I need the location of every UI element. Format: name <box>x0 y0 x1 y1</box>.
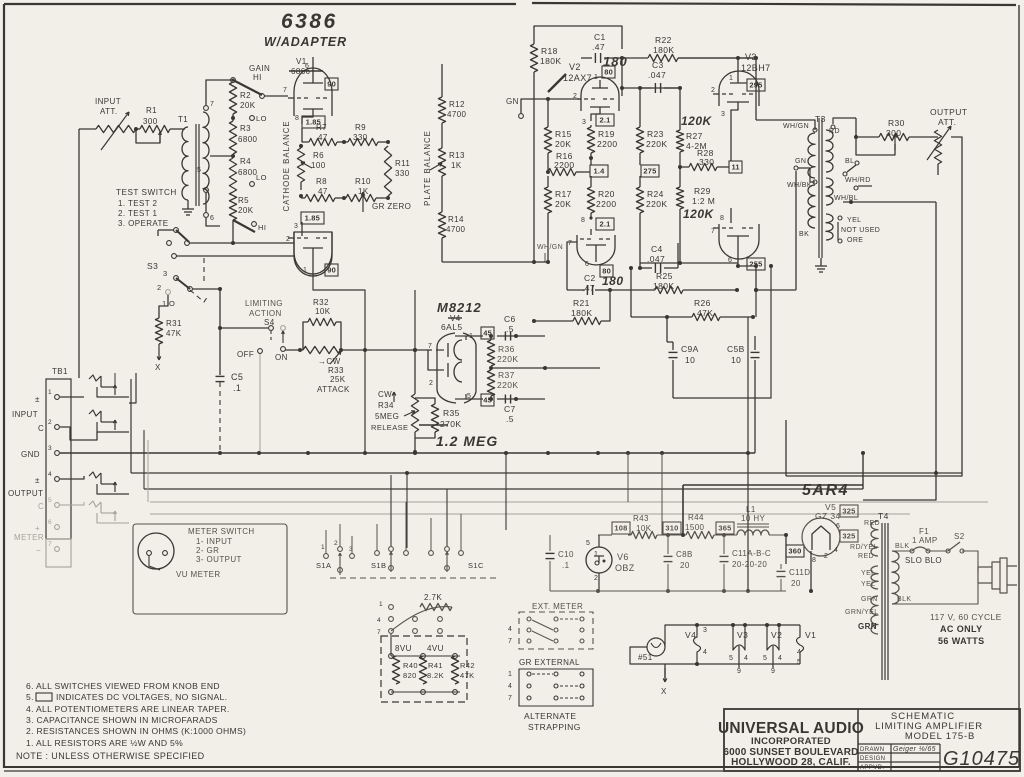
svg-text:4: 4 <box>797 649 801 656</box>
gnd T3 <box>815 258 827 272</box>
value 180 a <box>603 54 628 69</box>
pin 5 V4 <box>466 393 483 400</box>
svg-text:3: 3 <box>294 223 298 230</box>
svg-text:1: 1 <box>48 389 52 396</box>
svg-text:C6: C6 <box>504 314 516 324</box>
wire y263 <box>640 262 738 264</box>
svg-text:220K: 220K <box>497 354 518 364</box>
wire <box>809 551 813 593</box>
svg-text:V2: V2 <box>771 630 782 640</box>
svg-text:GR EXTERNAL: GR EXTERNAL <box>519 658 580 667</box>
heavy feed <box>683 485 863 535</box>
svg-text:R10: R10 <box>355 177 371 186</box>
svg-text:INPUT: INPUT <box>12 410 38 419</box>
svg-text:820: 820 <box>403 671 417 680</box>
svg-text:ATTACK: ATTACK <box>317 385 350 394</box>
title note 6386 <box>281 10 338 33</box>
svg-text:R4: R4 <box>240 157 251 166</box>
T4 sec red <box>850 520 880 560</box>
resistor R43 <box>631 514 657 539</box>
wire x667 <box>666 317 668 342</box>
svg-text:4: 4 <box>703 649 707 656</box>
svg-text:1500: 1500 <box>685 523 705 532</box>
T3 sec wiring <box>833 118 936 241</box>
plate balance label <box>423 130 432 206</box>
svg-text:ATT.: ATT. <box>938 117 956 127</box>
heater V2 <box>763 623 782 675</box>
gnd bus ps <box>550 589 786 593</box>
svg-text:R22: R22 <box>655 35 672 45</box>
svg-text:LO: LO <box>256 114 267 123</box>
boxed 275 <box>641 165 659 177</box>
svg-text:325: 325 <box>842 507 855 516</box>
pin1 V2 <box>594 74 598 81</box>
wire <box>60 476 84 479</box>
alternate strapping label <box>524 711 581 732</box>
wire x506 <box>505 453 507 530</box>
svg-text:T3: T3 <box>815 114 826 124</box>
svg-text:GN: GN <box>795 158 806 165</box>
capacitor C9B <box>727 336 760 453</box>
pin7 V2 <box>567 240 577 290</box>
svg-text:1: 1 <box>729 75 733 82</box>
wire <box>754 56 758 120</box>
svg-text:R8: R8 <box>316 177 327 186</box>
wire x662 <box>661 453 663 535</box>
wire <box>60 396 84 398</box>
svg-text:YEL: YEL <box>861 570 875 577</box>
svg-text:5: 5 <box>763 655 767 662</box>
svg-text:270K: 270K <box>440 419 461 429</box>
resistor R12 <box>438 97 466 123</box>
cap C8B <box>664 535 693 591</box>
svg-text:20K: 20K <box>555 199 571 209</box>
jack input 1 <box>59 375 129 397</box>
resistor R40 <box>392 656 418 684</box>
title table <box>858 744 940 771</box>
svg-text:C5B: C5B <box>727 344 745 354</box>
svg-text:1 AMP: 1 AMP <box>912 536 938 545</box>
svg-text:HI: HI <box>258 223 266 232</box>
svg-text:OUTPUT: OUTPUT <box>8 489 43 498</box>
TB1 terminal 5 <box>8 489 59 511</box>
potentiometer R34 <box>371 350 419 454</box>
svg-text:INPUT: INPUT <box>95 97 121 106</box>
svg-text:7: 7 <box>210 101 214 108</box>
transformer T1 core <box>196 124 199 206</box>
dashed gang S3 <box>190 258 208 302</box>
pin1 V3 <box>729 56 740 82</box>
svg-text:1: 1 <box>379 601 383 608</box>
svg-text:V3: V3 <box>737 630 748 640</box>
svg-text:8: 8 <box>581 217 585 224</box>
value 120K b <box>683 207 715 221</box>
svg-text:±: ± <box>35 395 40 404</box>
inductor L1 <box>737 505 769 535</box>
TB1 terminal 1 <box>35 389 59 404</box>
label V2 <box>548 62 592 92</box>
resistor R37 <box>487 370 518 396</box>
svg-text:X: X <box>661 687 667 696</box>
svg-text:#51: #51 <box>638 653 653 662</box>
svg-text:G10475: G10475 <box>943 748 1020 770</box>
svg-text:HI: HI <box>253 73 262 82</box>
note footer <box>16 751 205 761</box>
svg-text:ATT.: ATT. <box>100 107 117 116</box>
capacitor C5 <box>216 289 244 452</box>
wires S1 up <box>326 475 461 553</box>
svg-text:RELEASE: RELEASE <box>371 423 408 432</box>
svg-text:220K: 220K <box>497 380 518 390</box>
svg-text:BLK: BLK <box>895 543 909 550</box>
wire x771 <box>673 264 773 398</box>
svg-text:AC ONLY: AC ONLY <box>940 624 982 634</box>
svg-text:R5: R5 <box>238 196 249 205</box>
boxed 310 <box>663 522 681 534</box>
svg-text:1K: 1K <box>451 161 462 170</box>
wire out right2 <box>863 202 938 500</box>
svg-text:R40: R40 <box>403 661 418 670</box>
resistor R1 <box>140 125 170 132</box>
svg-text:3: 3 <box>582 119 586 126</box>
svg-text:GAIN: GAIN <box>249 64 270 73</box>
bus y489 <box>144 488 863 490</box>
TB1 terminal 6 <box>35 519 59 533</box>
wire <box>730 123 732 161</box>
resistor R27 <box>676 86 707 169</box>
wire <box>937 164 939 175</box>
boxed 365 <box>716 522 734 534</box>
svg-text:ON: ON <box>275 353 288 362</box>
svg-text:108: 108 <box>614 524 627 533</box>
svg-text:−: − <box>36 546 41 555</box>
resistor R17 <box>544 176 571 262</box>
svg-text:R44: R44 <box>688 513 704 522</box>
svg-text:5MEG: 5MEG <box>375 412 399 421</box>
svg-text:RD/YEL: RD/YEL <box>850 544 878 551</box>
meter switch label <box>188 527 255 564</box>
test switch items <box>118 199 169 228</box>
wire GN <box>506 97 581 118</box>
label GR ZERO <box>372 202 411 211</box>
svg-text:7: 7 <box>428 343 432 350</box>
svg-text:2.1: 2.1 <box>599 116 610 125</box>
wire <box>376 197 388 199</box>
svg-text:R25: R25 <box>656 271 673 281</box>
svg-text:7: 7 <box>711 228 715 235</box>
svg-text:7: 7 <box>377 629 381 636</box>
svg-text:3: 3 <box>163 269 168 278</box>
svg-text:C3: C3 <box>652 60 664 70</box>
svg-text:CW: CW <box>378 390 392 399</box>
svg-text:C9A: C9A <box>681 344 699 354</box>
svg-text:R2: R2 <box>240 91 251 100</box>
svg-text:.047: .047 <box>648 70 666 80</box>
wire <box>441 176 443 212</box>
wire <box>738 264 758 290</box>
svg-text:R18: R18 <box>541 46 558 56</box>
wire <box>205 193 207 212</box>
svg-text:R7: R7 <box>316 123 327 132</box>
terminal board TB1 label <box>52 367 68 376</box>
svg-text:V2: V2 <box>569 62 581 72</box>
wire <box>134 127 140 131</box>
svg-text:METER SWITCH: METER SWITCH <box>188 527 255 536</box>
wire c2 row <box>567 285 612 295</box>
svg-text:V6: V6 <box>617 552 629 562</box>
svg-text:TEST SWITCH: TEST SWITCH <box>116 188 177 197</box>
resistor R9 <box>348 123 378 146</box>
svg-text:WH/RD: WH/RD <box>845 177 871 184</box>
svg-text:.5: .5 <box>506 324 514 334</box>
svg-text:NOT USED: NOT USED <box>841 227 880 234</box>
wire <box>639 176 641 187</box>
svg-text:1.85: 1.85 <box>305 214 320 223</box>
svg-text:R37: R37 <box>498 370 515 380</box>
svg-text:INDICATES DC VOLTAGES, NO SIGN: INDICATES DC VOLTAGES, NO SIGNAL. <box>56 692 227 702</box>
boxed 108 <box>612 522 630 534</box>
svg-text:4700: 4700 <box>447 110 467 119</box>
value 1.2 MEG <box>436 433 498 449</box>
svg-text:47K: 47K <box>166 329 182 338</box>
pin 8 V1 <box>295 109 313 124</box>
svg-text:R19: R19 <box>598 129 615 139</box>
wire <box>114 373 116 388</box>
terminal T1 pin7 <box>204 101 215 110</box>
bus y535 <box>598 533 786 537</box>
meter box <box>133 524 287 614</box>
svg-text:DESIGN: DESIGN <box>860 756 885 762</box>
cap C11D <box>777 564 811 591</box>
strap terminals <box>377 601 442 636</box>
wire x786b <box>784 533 788 564</box>
svg-text:R36: R36 <box>498 344 515 354</box>
capacitor C2 <box>582 273 624 293</box>
svg-text:3: 3 <box>48 445 52 452</box>
resistor R35 <box>415 398 461 438</box>
svg-text:R9: R9 <box>355 123 366 132</box>
potentiometer R33 <box>303 346 350 394</box>
svg-text:100: 100 <box>311 161 326 170</box>
svg-text:1:2 M: 1:2 M <box>692 196 715 206</box>
svg-text:GRN/YEL: GRN/YEL <box>845 609 879 616</box>
resistor R29 <box>676 167 715 265</box>
label V3 <box>741 52 771 73</box>
svg-text:BK: BK <box>799 231 809 238</box>
svg-text:47K: 47K <box>460 671 475 680</box>
wire X down <box>661 664 667 696</box>
wire vertical x144 <box>143 430 145 489</box>
boxed 80 a <box>602 66 615 78</box>
svg-text:8VU: 8VU <box>395 644 412 653</box>
terminal T1 pin5 <box>197 167 208 192</box>
loop R30 <box>856 137 895 155</box>
switch S4 <box>218 326 285 343</box>
T4 sec grn <box>845 596 879 634</box>
T3 labels <box>783 123 880 244</box>
cap C11ABC <box>720 535 772 591</box>
svg-text:.1: .1 <box>233 383 241 393</box>
svg-text:C11D: C11D <box>789 568 810 577</box>
svg-text:5.: 5. <box>26 692 34 702</box>
capacitor C7 <box>497 395 516 425</box>
boxed 360 <box>786 545 804 557</box>
wire <box>192 287 222 291</box>
svg-text:EXT. METER: EXT. METER <box>532 602 583 611</box>
svg-text:90: 90 <box>327 266 336 275</box>
wire <box>60 427 97 440</box>
resistor R18 <box>530 44 561 262</box>
svg-text:4VU: 4VU <box>427 644 444 653</box>
resistor R5 <box>229 192 253 220</box>
TB1 terminal 3 <box>21 445 59 459</box>
svg-text:R11: R11 <box>395 159 410 168</box>
ac label <box>930 612 1002 646</box>
tube V5 GZ34 <box>802 502 841 564</box>
svg-text:7: 7 <box>508 695 512 702</box>
resistor R28 <box>680 148 729 171</box>
svg-text:9: 9 <box>737 668 741 675</box>
svg-text:220K: 220K <box>646 139 667 149</box>
svg-text:3- OUTPUT: 3- OUTPUT <box>196 555 242 564</box>
switch S1B <box>371 547 408 572</box>
potentiometer R10 <box>346 177 376 212</box>
heater V4 <box>685 623 707 666</box>
wire x407 <box>406 475 408 548</box>
svg-text:1. TEST 2: 1. TEST 2 <box>118 199 157 208</box>
wire y290 <box>754 288 796 292</box>
boxed 80 b <box>600 265 613 277</box>
svg-text:2. RESISTANCES SHOWN IN OHMS (: 2. RESISTANCES SHOWN IN OHMS (K:1000 OHM… <box>26 726 246 736</box>
test switch contacts upper <box>158 228 189 259</box>
svg-text:4: 4 <box>834 547 838 554</box>
svg-text:VU METER: VU METER <box>176 570 221 579</box>
svg-text:S1A: S1A <box>316 561 331 570</box>
svg-text:GRN: GRN <box>861 596 878 603</box>
svg-text:6: 6 <box>836 523 840 530</box>
vu net wires <box>389 634 460 694</box>
pin6 V2 <box>585 261 589 268</box>
svg-text:2: 2 <box>594 575 598 582</box>
svg-text:360: 360 <box>788 547 801 556</box>
pin 1 V4 <box>466 333 483 340</box>
svg-text:WH/GN: WH/GN <box>537 244 563 251</box>
pin 1 V1 <box>303 262 313 277</box>
resistor R24 <box>636 187 667 263</box>
svg-text:1.4: 1.4 <box>593 167 605 176</box>
switch HI arm <box>233 220 266 232</box>
tube V2 upper <box>581 77 619 111</box>
resistor R25 <box>610 271 739 294</box>
resistor R42 <box>451 656 475 684</box>
wire <box>176 255 281 257</box>
wire x863 <box>861 451 865 489</box>
svg-text:GRN: GRN <box>858 622 877 631</box>
svg-text:R14: R14 <box>448 215 464 224</box>
gr external label <box>519 658 580 667</box>
svg-text:C8B: C8B <box>676 550 693 559</box>
resistor R30 <box>856 118 930 150</box>
T3 wiring left <box>756 120 815 290</box>
T3 core <box>819 118 822 258</box>
capacitor C6 <box>497 314 516 341</box>
wire y88 <box>640 87 680 89</box>
boxed 1.4 <box>590 165 608 177</box>
svg-text:R41: R41 <box>428 661 443 670</box>
wire <box>441 123 443 148</box>
pin 2 V4 <box>428 350 436 387</box>
svg-text:R34: R34 <box>378 401 394 410</box>
svg-text:→CW: →CW <box>318 357 341 366</box>
tube V2 lower <box>577 229 615 265</box>
wire vertical x131 <box>130 379 132 473</box>
tube V1 upper triode <box>294 68 332 116</box>
test switch label <box>116 188 177 197</box>
svg-text:310: 310 <box>665 524 678 533</box>
input attenuator label <box>95 97 121 116</box>
resistor R23 <box>636 86 667 165</box>
boxed 255 <box>747 258 765 270</box>
svg-text:330: 330 <box>395 169 410 178</box>
ac plug <box>978 558 1017 593</box>
wire plate top <box>854 118 858 139</box>
wire <box>667 341 673 343</box>
boxed voltage 90 <box>325 78 338 90</box>
pin2 V2 <box>573 93 581 100</box>
T3 prim top <box>808 128 817 178</box>
title note w/adapter <box>264 35 347 49</box>
wire x628 <box>627 453 629 502</box>
svg-text:ALTERNATE: ALTERNATE <box>524 711 576 721</box>
node V1 grid pin7 <box>283 87 287 94</box>
svg-text:2200: 2200 <box>596 199 617 209</box>
wire <box>231 220 235 245</box>
svg-text:47: 47 <box>318 187 328 196</box>
svg-text:R21: R21 <box>573 298 590 308</box>
svg-text:R23: R23 <box>647 129 664 139</box>
wire out right <box>786 137 962 476</box>
svg-text:R24: R24 <box>647 189 664 199</box>
svg-text:MODEL 175-B: MODEL 175-B <box>905 731 975 742</box>
svg-text:OFF: OFF <box>237 350 254 359</box>
svg-text:ACTION: ACTION <box>249 309 282 318</box>
wire <box>206 80 233 105</box>
svg-text:8: 8 <box>295 115 299 122</box>
svg-text:4: 4 <box>778 655 782 662</box>
potentiometer input att <box>96 112 136 150</box>
wiper loop R1 <box>136 129 161 143</box>
svg-text:90: 90 <box>327 80 336 89</box>
svg-text:PLATE BALANCE: PLATE BALANCE <box>423 130 432 206</box>
svg-text:1K: 1K <box>358 187 369 196</box>
svg-text:7: 7 <box>283 87 287 94</box>
svg-text:4: 4 <box>48 471 52 478</box>
wire <box>285 348 303 352</box>
svg-text:2.1: 2.1 <box>599 220 610 229</box>
svg-text:C: C <box>38 424 44 433</box>
boxed 11 <box>729 161 742 173</box>
svg-text:6800: 6800 <box>238 135 258 144</box>
svg-text:1: 1 <box>303 267 307 274</box>
transformer T1 label <box>178 115 188 124</box>
svg-text:8: 8 <box>720 215 724 222</box>
svg-text:TB1: TB1 <box>52 367 68 376</box>
svg-text:5: 5 <box>797 659 801 666</box>
node dots <box>218 451 750 455</box>
svg-text:C7: C7 <box>504 404 516 414</box>
resistor R1 label <box>143 106 158 126</box>
svg-text:117 V, 60 CYCLE: 117 V, 60 CYCLE <box>930 612 1002 622</box>
